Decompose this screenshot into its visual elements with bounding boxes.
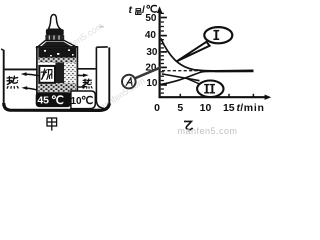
left heat arrow bottom [21, 86, 36, 90]
bottle contents shading top band [38, 48, 76, 58]
water line left [5, 68, 37, 70]
callout A circle [122, 75, 136, 89]
character 甲 label [47, 118, 57, 131]
bottle contents far right speckle [64, 63, 76, 84]
dashed line at 20 [162, 70, 206, 72]
x axis labels [154, 102, 235, 114]
y minor ticks [161, 13, 164, 93]
bottle contents right dark strip [55, 63, 64, 84]
callout A tail [135, 68, 161, 79]
svg-text:℃: ℃ [51, 94, 64, 107]
water line right [77, 68, 95, 70]
character 热 (hot) right [83, 79, 92, 88]
curve I (cooling) [161, 38, 254, 71]
45°C black label [36, 92, 71, 107]
container right outer wall [108, 47, 110, 104]
curve II (warming) [160, 71, 253, 84]
subscript 温 [136, 9, 141, 15]
bottle nipple [48, 15, 60, 30]
svg-text:10: 10 [200, 102, 212, 114]
right heat arrow bottom [77, 85, 88, 89]
svg-text:40: 40 [145, 30, 157, 41]
left heat arrow top [21, 72, 39, 76]
right heat arrow top [77, 74, 89, 78]
milk label box [39, 66, 55, 83]
bottle shoulder [37, 40, 77, 47]
svg-text:/min: /min [240, 102, 264, 114]
balloon II ellipse [197, 81, 223, 98]
y major ticks [161, 18, 167, 85]
character 乙 label [184, 121, 193, 129]
y axis [159, 11, 161, 98]
bottle cap lower band [45, 35, 64, 40]
balloon I ellipse [204, 27, 232, 43]
faint scan watermark streaks [54, 21, 147, 114]
container left wall [1, 49, 4, 105]
svg-text:45: 45 [37, 95, 49, 107]
y axis arrow head [157, 6, 163, 13]
container rim hook top right [96, 46, 107, 48]
x ticks [180, 94, 253, 97]
svg-text:℃: ℃ [81, 95, 93, 107]
x axis [159, 96, 268, 98]
svg-text:30: 30 [146, 47, 158, 58]
balloon II tail lines [162, 74, 200, 81]
character 奶 (milk) [41, 69, 52, 79]
y axis labels [145, 13, 158, 89]
svg-text:10: 10 [146, 78, 158, 89]
character 热 (hot) left [7, 76, 18, 88]
bottle contents lower band [38, 83, 76, 93]
x axis arrow head [265, 95, 272, 100]
container bottom with rounded corners [4, 103, 110, 110]
10°C box [71, 91, 95, 109]
svg-text:15: 15 [223, 102, 235, 114]
svg-text:0: 0 [154, 102, 160, 114]
svg-text:50: 50 [145, 13, 157, 24]
bottle cap dark band [46, 29, 64, 35]
svg-text:5: 5 [177, 102, 183, 114]
svg-text:manfen5.com: manfen5.com [178, 126, 238, 134]
balloon I tail [177, 42, 210, 61]
container inner right rim line [96, 47, 103, 108]
svg-text:t: t [129, 4, 133, 16]
bottle body [37, 47, 78, 93]
